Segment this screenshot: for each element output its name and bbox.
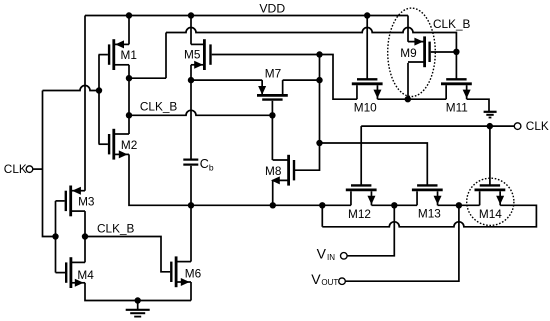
transistor M10 (352, 79, 383, 99)
wire CLK link (43, 86, 100, 91)
node VOUT rail (456, 202, 462, 208)
wire M7 drain link (283, 79, 320, 81)
wire CLK vertical (43, 91, 56, 237)
transistor M13 (412, 185, 443, 205)
node M7 gate (269, 112, 275, 118)
wire CLK output (361, 125, 514, 127)
wire loop left up (321, 205, 323, 227)
node CLK_B bottom (82, 233, 88, 239)
wire M14 gate column (489, 126, 491, 185)
svg-text:M4: M4 (77, 268, 94, 282)
transistor M1 (99, 39, 130, 70)
node loop left (319, 202, 325, 208)
transistor M8 (271, 155, 294, 186)
wire M5 gate line (212, 55, 357, 100)
svg-text:CLK: CLK (4, 162, 27, 176)
svg-text:M10: M10 (354, 101, 377, 115)
wire M1 source column (128, 65, 130, 134)
transistor M9 (408, 36, 430, 67)
svg-text:M1: M1 (121, 48, 137, 62)
wire node column (319, 55, 321, 144)
wire M3-M4 gate column (55, 201, 57, 273)
capacitor Cb (183, 160, 198, 165)
svg-text:V: V (311, 271, 321, 287)
node gate column (96, 87, 102, 93)
svg-text:V: V (317, 245, 327, 261)
transistor M12 (346, 185, 377, 205)
wire bottom rail mid1 (371, 204, 417, 206)
wire M2 source to rail (129, 154, 191, 205)
wire M11 drain to ground (467, 99, 489, 111)
node M5 gate line (316, 51, 322, 57)
node M1 source (126, 75, 132, 81)
wire M9 drain to VDD (407, 16, 409, 42)
node M2 drain (126, 112, 132, 118)
wire CLK_B mid line (129, 110, 272, 115)
wire M1-M2 gate column (98, 55, 100, 144)
wire M10 gate to VDD (366, 16, 368, 80)
svg-text:M12: M12 (348, 207, 371, 221)
svg-text:M2: M2 (121, 138, 137, 152)
wire M1 drain to VDD (128, 16, 130, 45)
wire boosted node link (165, 33, 167, 79)
svg-text:VDD: VDD (259, 1, 285, 15)
label VIN (317, 245, 336, 262)
wire boost line (166, 28, 456, 80)
wire M5 drain to VDD (190, 16, 192, 45)
svg-text:M11: M11 (446, 101, 468, 115)
node M8 gate (316, 140, 322, 146)
svg-text:M9: M9 (400, 46, 416, 60)
terminal CLK output (514, 123, 521, 130)
svg-text:M14: M14 (479, 207, 502, 221)
transistor M11 (441, 79, 472, 99)
svg-text:IN: IN (327, 253, 335, 262)
node VDD-M10 (364, 12, 370, 18)
svg-text:CLK_B: CLK_B (140, 100, 178, 114)
wire M3 source to M4 drain (84, 211, 86, 262)
svg-text:C: C (200, 157, 209, 171)
wire VDD rail (85, 15, 408, 17)
node M5 source (188, 77, 194, 83)
node VDD-M5 (188, 12, 194, 18)
svg-text:M13: M13 (418, 206, 441, 220)
svg-text:b: b (209, 162, 214, 172)
transistor M14 (475, 185, 506, 205)
wire Cb to rail (190, 166, 192, 262)
transistor M7 (257, 80, 288, 100)
wire M8 gate link (295, 143, 320, 170)
ellipse around M9 (388, 8, 436, 96)
wire M9 source column (407, 63, 409, 99)
circle around M14 (467, 178, 514, 225)
wire M7 gate to M8 drain (271, 101, 273, 160)
wire M9 gate lead (431, 51, 457, 53)
wire M10 drain row (377, 98, 446, 100)
wire M5 source to M7 (191, 79, 262, 81)
svg-text:CLK: CLK (526, 119, 549, 133)
node ground rail (135, 297, 141, 303)
wire M4 source down (85, 283, 191, 301)
svg-text:M3: M3 (78, 195, 95, 209)
transistor M2 (99, 129, 130, 160)
wire M5 source column (190, 65, 192, 159)
node VDD-M1 (126, 12, 132, 18)
ground right (484, 112, 497, 118)
label Cb (200, 157, 214, 172)
svg-text:M8: M8 (265, 164, 282, 178)
node Cb rail (188, 202, 194, 208)
wire VDD to M3 drain (84, 16, 86, 191)
wire M8 source to rail (272, 180, 274, 205)
wire VIN (347, 205, 394, 256)
svg-text:CLK_B: CLK_B (97, 221, 135, 235)
node M9 source (405, 96, 411, 102)
node M9 gate (453, 49, 459, 55)
wire CLK stub (33, 168, 43, 170)
terminal VOUT (339, 278, 346, 285)
terminal CLK input (26, 166, 33, 173)
node VIN rail (391, 202, 397, 208)
transistor M5 (191, 39, 211, 70)
wire M14 drain loop (322, 205, 536, 227)
transistor M6 (171, 256, 191, 287)
wire CLK_B to M6 gate (85, 237, 170, 272)
svg-text:M7: M7 (265, 67, 281, 81)
wire M6 source down (190, 282, 192, 301)
transistor M3 (56, 186, 86, 217)
svg-text:M6: M6 (185, 266, 202, 280)
wire bottom rail left (191, 204, 351, 206)
wire VOUT (345, 205, 459, 281)
wire bottom rail mid2 (438, 204, 480, 206)
wire node to boost (129, 77, 166, 79)
label VOUT (311, 271, 338, 287)
terminal VIN (341, 253, 348, 260)
transistor M4 (56, 257, 86, 288)
wire M12 gate column (360, 126, 362, 185)
wire M13 gate line (320, 143, 428, 186)
svg-text:CLK_B: CLK_B (433, 17, 471, 31)
node M8 source (270, 202, 276, 208)
node M7 drain (316, 77, 322, 83)
node CLK output (487, 123, 493, 129)
svg-text:M5: M5 (184, 48, 201, 62)
node CLK gates (52, 233, 58, 239)
svg-text:OUT: OUT (321, 278, 338, 287)
ground (126, 301, 150, 317)
